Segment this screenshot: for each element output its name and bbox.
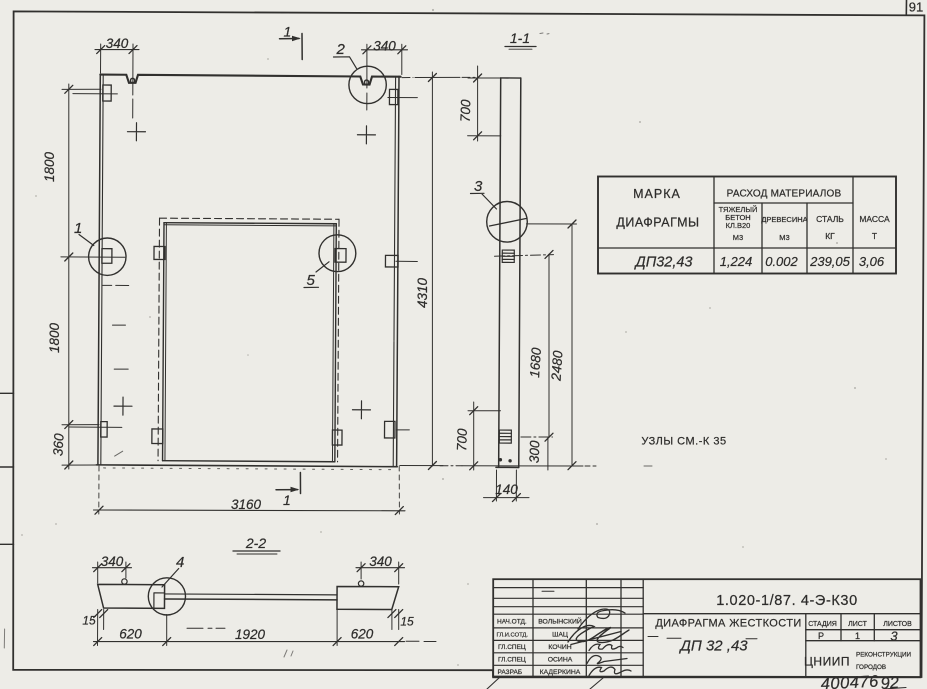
svg-text:М3: М3 — [733, 233, 743, 242]
dimension 1680 — [495, 250, 554, 441]
svg-text:НАЧ.ОТД.: НАЧ.ОТД. — [497, 619, 527, 626]
svg-text:1: 1 — [284, 24, 292, 40]
base datum line — [440, 465, 652, 467]
embedded plate M8 opening left jamb bottom — [152, 429, 163, 444]
cross mark bottom-right — [352, 401, 370, 419]
pencil slash mid below title block — [590, 678, 603, 689]
svg-text:ДП32,43: ДП32,43 — [633, 255, 692, 271]
joint step detail — [154, 593, 165, 608]
signature 1 — [578, 609, 625, 629]
svg-text:РАЗРАБ: РАЗРАБ — [498, 669, 523, 676]
left margin tick y=544 — [0, 543, 14, 545]
detail circle 2 — [334, 41, 387, 104]
short axis dash y=369 — [114, 368, 128, 370]
svg-text:239,05: 239,05 — [809, 254, 851, 269]
svg-text:2: 2 — [336, 41, 346, 58]
svg-text:1,224: 1,224 — [720, 254, 753, 269]
svg-text:ВОЛЫНСКИЙ: ВОЛЫНСКИЙ — [538, 617, 582, 626]
svg-text:МАРКА: МАРКА — [633, 187, 681, 201]
svg-text:91: 91 — [909, 0, 923, 15]
chain tick y=424.6 — [62, 424, 99, 426]
embedded plate M5 right panel middle — [385, 255, 398, 267]
svg-text:3,06: 3,06 — [859, 254, 885, 269]
role labels column — [497, 619, 529, 677]
door opening: right jamb (double solid) — [332, 224, 336, 462]
svg-text:4: 4 — [176, 554, 184, 571]
dimension 340 top-right — [362, 39, 408, 111]
svg-text:ЛИСТ: ЛИСТ — [848, 621, 867, 628]
dimension 700 (top) — [458, 66, 501, 141]
embedded plate M1 left panel top — [103, 85, 111, 101]
leader line plate M1 — [73, 93, 117, 95]
svg-text:92: 92 — [880, 674, 900, 689]
bottom edge of diaphragm — [96, 465, 397, 467]
left margin dash bottom — [3, 629, 5, 648]
left end block (plan cut) — [98, 584, 165, 608]
short axis dash y=325 — [112, 324, 125, 326]
svg-text:340: 340 — [373, 39, 396, 54]
embedded plate M7 opening left jamb top — [154, 246, 165, 259]
opening hidden outline top (dashed) — [160, 218, 339, 219]
left dimension chain line — [42, 84, 101, 469]
svg-text:ЦНИИП: ЦНИИП — [804, 655, 850, 669]
svg-text:ДРЕВЕСИНА: ДРЕВЕСИНА — [761, 215, 807, 224]
svg-text:ГЛ.СПЕЦ: ГЛ.СПЕЦ — [498, 644, 526, 651]
stray mark near 1-1 title — [540, 33, 549, 34]
svg-text:ГЛ.СПЕЦ: ГЛ.СПЕЦ — [498, 656, 526, 663]
section cut mark 1 (bottom) — [276, 473, 301, 509]
svg-text:СТАЛЬ: СТАЛЬ — [816, 214, 844, 224]
opening hidden outline left (dashed) — [158, 218, 159, 461]
signature 5 — [589, 667, 631, 675]
lifting loop left (plan) — [122, 579, 127, 584]
lifting loop right (plan) — [358, 581, 363, 586]
hatched plate lower — [499, 430, 511, 443]
embedded plate M3 left panel bottom — [101, 422, 107, 437]
svg-text:360: 360 — [50, 433, 66, 457]
left margin tick y=467 — [0, 466, 14, 468]
axis dash-dot in 2-2 — [187, 627, 225, 629]
anchor dots at column base — [499, 458, 502, 461]
svg-text:РЕКОНСТРУКЦИИ: РЕКОНСТРУКЦИИ — [856, 652, 912, 659]
stray pencil marks bottom center — [284, 650, 293, 657]
left margin tick y=393 — [0, 392, 14, 394]
svg-text:620: 620 — [119, 627, 142, 642]
dimension 140 — [484, 470, 530, 502]
svg-text:2-2: 2-2 — [245, 535, 266, 551]
svg-text:2480: 2480 — [548, 350, 565, 382]
signature 3 — [589, 644, 623, 650]
dimension 340 top-left — [95, 36, 139, 118]
cross mark top-right — [357, 126, 375, 144]
dimension 15 right — [388, 610, 414, 630]
chain tick y=257 (shares plate leader) — [65, 253, 73, 261]
detail circle 4 — [148, 578, 185, 615]
detail circle 1 — [74, 220, 126, 275]
title block horizontals right — [643, 614, 920, 641]
svg-text:0.002: 0.002 — [765, 254, 798, 269]
title block verticals — [533, 579, 643, 677]
svg-text:1800: 1800 — [42, 151, 57, 182]
lifting loop 1 (left) — [131, 78, 135, 82]
embedded plate M2 left panel middle — [102, 249, 112, 264]
column right edge — [519, 78, 521, 467]
cross mark bottom-left — [114, 397, 132, 415]
wall slab (edge view) — [165, 594, 338, 600]
svg-text:620: 620 — [351, 627, 374, 642]
column top edge — [501, 77, 521, 79]
svg-text:ОСИНА: ОСИНА — [548, 656, 573, 663]
right panel edge (double line) — [393, 76, 399, 466]
stray pencil tick — [115, 451, 123, 456]
dimension 340 left (2-2) — [93, 554, 132, 583]
svg-text:КОЧИН: КОЧИН — [548, 644, 571, 651]
header масса — [859, 214, 890, 241]
svg-text:1: 1 — [283, 492, 291, 508]
svg-text:ДИАФРАГМЫ: ДИАФРАГМЫ — [616, 216, 699, 230]
svg-text:КГ: КГ — [825, 231, 835, 241]
svg-text:1: 1 — [74, 220, 82, 237]
left panel edge (double line) — [98, 75, 103, 465]
svg-text:ЛИСТОВ: ЛИСТОВ — [883, 621, 912, 628]
svg-text:1800: 1800 — [47, 322, 62, 353]
handwritten inventory number 400476 92 — [820, 672, 906, 689]
svg-text:1920: 1920 — [235, 627, 266, 642]
header сталь — [816, 214, 844, 241]
table verticals — [714, 177, 853, 274]
axis dash right of 2-2 — [406, 640, 436, 642]
detail circle 5 — [304, 235, 356, 289]
detail circle 3 — [487, 202, 528, 243]
dimension 2480 — [527, 220, 577, 470]
pencil slash left below title block — [487, 677, 500, 689]
svg-text:1.020-1/87. 4-Э-К30: 1.020-1/87. 4-Э-К30 — [716, 593, 858, 609]
svg-text:1-1: 1-1 — [510, 30, 530, 46]
embedded plate M6 right panel bottom — [384, 421, 395, 438]
dimension 300 — [521, 437, 553, 470]
empty row dash — [542, 590, 554, 592]
svg-text:340: 340 — [369, 554, 392, 569]
svg-text:М3: М3 — [779, 233, 789, 242]
names column — [538, 617, 582, 677]
svg-text:700: 700 — [458, 99, 474, 123]
lifting loop 2 (right) — [365, 80, 369, 84]
leader line plate M4 — [388, 96, 417, 98]
svg-text:700: 700 — [454, 428, 470, 452]
bottom hidden/dotted line — [104, 468, 397, 470]
door opening: bottom edge — [163, 461, 335, 462]
svg-text:КАДЕРКИНА: КАДЕРКИНА — [540, 669, 581, 676]
cross mark top-left — [127, 123, 145, 141]
svg-text:15: 15 — [400, 615, 414, 629]
svg-text:1: 1 — [855, 631, 860, 641]
dimension 4310 (right of main view) — [400, 72, 478, 470]
bottom dimension chain 620/1920/620 — [94, 609, 405, 646]
svg-text:1680: 1680 — [527, 347, 544, 378]
leader line plate M3 — [69, 426, 122, 428]
svg-text:340: 340 — [106, 36, 129, 51]
short axis dash y=285 — [103, 284, 129, 286]
embedded plate M4 right panel top — [389, 89, 397, 104]
dimension 340 right (2-2) — [356, 554, 405, 584]
dimension 3160 (bottom of main view) — [94, 466, 406, 515]
svg-text:300: 300 — [527, 440, 543, 464]
signature 2 — [568, 626, 629, 645]
leader line plate M2 — [61, 256, 125, 258]
svg-text:РАСХОД МАТЕРИАЛОВ: РАСХОД МАТЕРИАЛОВ — [727, 189, 842, 200]
embedded plate M9 opening right jamb top — [335, 249, 346, 263]
dashes near mark — [648, 637, 757, 639]
door opening: top edge (double solid) — [164, 223, 336, 226]
svg-text:5: 5 — [307, 272, 316, 289]
svg-text:3160: 3160 — [231, 497, 262, 512]
svg-text:Р: Р — [818, 631, 824, 641]
top chord with lifting loop notches — [100, 75, 400, 85]
svg-text:КЛ.В20: КЛ.В20 — [726, 221, 751, 230]
title block horizontals left — [493, 588, 643, 666]
hatched plate upper — [502, 250, 514, 262]
chain tick y=465 — [62, 464, 99, 466]
svg-text:4310: 4310 — [415, 277, 430, 308]
leader line plate M6 — [396, 429, 409, 431]
dimension 15 left — [82, 610, 107, 646]
svg-text:ШАЦ: ШАЦ — [552, 631, 568, 638]
chain tick y=89 — [62, 88, 101, 90]
svg-text:Т: Т — [872, 231, 877, 241]
svg-text:140: 140 — [495, 482, 518, 497]
svg-text:ДИАФРАГМА ЖЕСТКОСТИ: ДИАФРАГМА ЖЕСТКОСТИ — [655, 618, 801, 630]
header тяжелый бетон — [719, 205, 758, 242]
svg-text:МАССА: МАССА — [859, 214, 890, 224]
svg-text:3: 3 — [890, 629, 898, 644]
section cut mark 1 (top) — [280, 24, 303, 60]
sheet number box 91 — [906, 0, 923, 15]
svg-text:3: 3 — [474, 178, 483, 195]
table horizontals — [598, 203, 896, 248]
svg-text:15: 15 — [82, 614, 96, 628]
signature 4 — [587, 656, 627, 664]
svg-text:ДП 32 ,43: ДП 32 ,43 — [678, 638, 748, 655]
dimension 700 (bottom) — [454, 402, 500, 470]
header древесина — [761, 215, 807, 242]
table frame — [598, 177, 896, 274]
svg-text:ГЛ.И.СОТД.: ГЛ.И.СОТД. — [497, 632, 529, 638]
column bottom edge — [496, 466, 519, 468]
opening hidden outline right (dashed) — [338, 219, 339, 462]
svg-text:ГОРОДОВ: ГОРОДОВ — [856, 664, 886, 671]
weld line in circle 3 — [490, 219, 527, 227]
svg-text:УЗЛЫ СМ.-К 35: УЗЛЫ СМ.-К 35 — [641, 436, 726, 448]
title block frame — [493, 579, 920, 677]
svg-text:340: 340 — [101, 554, 124, 569]
svg-text:400476: 400476 — [820, 672, 879, 689]
column left edge — [499, 78, 501, 467]
svg-text:СТАДИЯ: СТАДИЯ — [808, 621, 837, 628]
right end block (plan cut) — [337, 586, 399, 609]
embedded plate M10 opening right jamb bottom — [332, 430, 342, 445]
leader line plate M5 — [396, 260, 417, 262]
door opening: left jamb (double solid) — [163, 223, 167, 461]
